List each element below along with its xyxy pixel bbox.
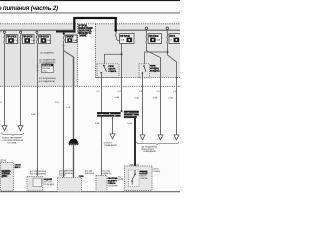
- svg-text:ЗАМОК: ЗАМОК: [66, 36, 74, 39]
- fuse F7 icon: [174, 38, 180, 43]
- page background: [0, 0, 180, 200]
- fuse F1 box: [6, 35, 18, 44]
- dashed box left section right edge: [77, 24, 79, 87]
- wire W6 relay K2 output: [142, 74, 144, 135]
- fuse F5 box: [120, 34, 134, 44]
- svg-text:0,5Ч: 0,5Ч: [169, 98, 174, 100]
- fuse F6 element: [146, 33, 147, 43]
- switch S1 tag: [140, 171, 148, 175]
- wire W4b: [73, 57, 75, 178]
- node relay K1 feed junction: [121, 53, 123, 55]
- fuse F3 icon: [41, 38, 47, 43]
- fuse F4 icon: [67, 38, 72, 42]
- bottom border rule: [0, 190, 180, 193]
- connector C1 pin block: [33, 178, 42, 186]
- fuse F1 terminal ring: [3, 31, 5, 33]
- svg-text:ПИТАНИЯ Ч.1: ПИТАНИЯ Ч.1: [78, 32, 92, 35]
- fuse F1 element: [4, 33, 5, 43]
- fuse F5 icon: [127, 38, 133, 43]
- bus bar thick segment: [56, 31, 76, 33]
- fuse F4 element: [63, 35, 64, 43]
- wire W3: [37, 43, 39, 176]
- brace under arrows A4 A5 A6: [137, 142, 179, 145]
- svg-text:(ДИЗ): (ДИЗ): [118, 179, 123, 181]
- svg-text:СТЕКЛА: СТЕКЛА: [108, 70, 116, 73]
- svg-text:П/Р Б: П/Р Б: [170, 36, 176, 38]
- fuse F3 box: [39, 35, 51, 44]
- thick battery feed bus: [74, 18, 115, 33]
- fuse F7 box: [169, 34, 181, 44]
- svg-text:(ДИЗЕЛЬ): (ДИЗЕЛЬ): [103, 173, 112, 175]
- svg-text:ТОПЛИВА: ТОПЛИВА: [7, 141, 17, 144]
- wire W1: [4, 43, 6, 125]
- svg-text:[37-4]: [37-4]: [0, 160, 6, 162]
- svg-text:ВЫКЛ: ВЫКЛ: [140, 173, 147, 175]
- svg-text:10A: 10A: [120, 39, 124, 42]
- brace under arrows A1 A2: [2, 133, 24, 136]
- wire W7 fuse F6 output: [147, 43, 161, 134]
- arrow A3: [110, 134, 115, 139]
- svg-text:[0,5 З/Б](БЕНЗ): [0,5 З/Б](БЕНЗ): [41, 52, 55, 54]
- svg-text:[0,5 З/Ч](ДИЗЕЛЬ): [0,5 З/Ч](ДИЗЕЛЬ): [30, 174, 46, 176]
- svg-text:10A: 10A: [156, 39, 160, 42]
- splice hatch bar: [69, 143, 79, 145]
- svg-text:15A: 15A: [14, 39, 18, 42]
- node lighting branch junction: [121, 110, 123, 112]
- wire W8 fuse F7 output: [168, 43, 177, 134]
- wire W3 branch ticks: [37, 65, 39, 70]
- wire W4 branch jog: [64, 51, 74, 57]
- svg-text:П/Р БЛОК: П/Р БЛОК: [149, 36, 159, 38]
- fuse F2 element: [20, 33, 21, 43]
- connector box C3: [96, 176, 107, 192]
- svg-text:ВОЗДУХА: ВОЗДУХА: [150, 70, 160, 73]
- wire W5 fuse F5 output: [121, 43, 123, 111]
- wire relay K2 feed: [145, 52, 168, 64]
- svg-text:[0,5 З/Ч](ДИЗЕЛЬ): [0,5 З/Ч](ДИЗЕЛЬ): [39, 81, 55, 83]
- top rule: [0, 12, 180, 15]
- fuse F2 icon: [24, 38, 30, 43]
- fuse F5 element (bus fed): [115, 32, 119, 41]
- svg-text:РАЗЪЕМ: РАЗЪЕМ: [42, 67, 50, 70]
- junction box shaded area right: [96, 24, 181, 78]
- svg-text:ние питания (часть 2): ние питания (часть 2): [0, 5, 58, 12]
- fuse F1 icon: [8, 38, 14, 43]
- top border line: [0, 0, 180, 1]
- fuse F6 icon: [150, 38, 155, 43]
- fuse row bus line left: [0, 29, 75, 32]
- switch box S1 bottom-right: [125, 166, 153, 191]
- dashed box bottom edge left: [0, 85, 180, 87]
- node fuse tap: [63, 33, 65, 35]
- node bus drop terminal: [114, 29, 117, 32]
- fuse row bus line right: [115, 29, 180, 32]
- fuse F3 element: [36, 33, 37, 43]
- svg-text:0,5В: 0,5В: [115, 97, 120, 99]
- svg-text:СМ.СХЕМУ: СМ.СХЕМУ: [108, 186, 119, 188]
- svg-text:1,0В: 1,0В: [31, 114, 36, 116]
- wire W2: [20, 43, 22, 125]
- svg-text:30A: 30A: [73, 39, 77, 42]
- dashed box bottom edge right inner: [96, 77, 181, 79]
- arrow A2: [18, 126, 23, 131]
- svg-text:ЗАЖИГ.: ЗАЖИГ.: [79, 34, 87, 37]
- relay K1 dashed box: [97, 64, 119, 78]
- relay K2 contact: [143, 65, 145, 67]
- svg-text:ЕМУ 2: ЕМУ 2: [15, 167, 22, 169]
- net label band right: [124, 111, 139, 113]
- shield splice dome on W4b: [69, 139, 78, 144]
- svg-text:15A: 15A: [30, 39, 34, 42]
- arrow A4: [140, 135, 145, 140]
- node relay K2 feed junction: [167, 51, 169, 53]
- svg-text:[06] ЮТ-В: [06] ЮТ-В: [130, 165, 140, 167]
- arrow A5: [158, 135, 163, 140]
- switch S1 inner box: [129, 170, 140, 187]
- arrow A1: [2, 126, 7, 131]
- svg-text:ПРОВОДКИ: ПРОВОДКИ: [44, 184, 55, 186]
- fuse F3 terminal ring: [36, 31, 38, 33]
- svg-text:ОСВЕЩ.: ОСВЕЩ.: [153, 171, 161, 173]
- svg-text:0,5Б: 0,5Б: [95, 123, 100, 125]
- fuse F6 terminal ring: [145, 27, 147, 29]
- net label band left: [97, 112, 121, 114]
- svg-text:10A: 10A: [47, 39, 51, 42]
- connector box C1: [27, 176, 43, 191]
- svg-text:0,5Б: 0,5Б: [153, 98, 158, 100]
- fuse F2 terminal ring: [20, 31, 22, 33]
- connector table at W3: [42, 64, 54, 73]
- fuse F2 box: [22, 35, 34, 44]
- svg-text:П/Р БЛОК: П/Р БЛОК: [120, 36, 130, 38]
- wire W9 relay K1 output: [101, 74, 103, 176]
- relay K1 contact: [103, 65, 105, 67]
- connector box C0 bottom-left: [1, 163, 14, 192]
- svg-text:СТЕКЛА: СТЕКЛА: [140, 177, 148, 180]
- dashed box top edge: [0, 23, 180, 25]
- fuse F7 terminal ring: [166, 27, 168, 29]
- fuse F7 element: [167, 33, 168, 43]
- connector box C2: [58, 178, 82, 192]
- wire branch to arrow A3: [112, 117, 114, 134]
- dashed box right section left edge: [94, 24, 96, 78]
- svg-text:ДВИГ.: ДВИГ.: [2, 176, 8, 178]
- svg-text:ОСВЕЩЕНИЕ: ОСВЕЩЕНИЕ: [143, 151, 156, 153]
- fuse F4 box: [66, 35, 78, 43]
- relay K2 dashed box: [139, 64, 150, 78]
- wire relay K1 feed: [105, 54, 122, 64]
- svg-text:(БЕНЗИН): (БЕНЗИН): [85, 173, 94, 175]
- svg-text:0,5Б: 0,5Б: [135, 98, 140, 100]
- svg-text:П/Р БЛОК: П/Р БЛОК: [42, 65, 52, 67]
- svg-text:0,5Ч: 0,5Ч: [128, 123, 133, 125]
- svg-text:[1,25 Ч]: [1,25 Ч]: [59, 175, 66, 177]
- svg-text:УПРАВЛЕНИЯ: УПРАВЛЕНИЯ: [104, 144, 118, 147]
- fuse F6 box: [148, 34, 161, 44]
- wire W4a: [63, 43, 65, 178]
- switch S1 contact: [134, 170, 136, 174]
- node W4a junction: [63, 44, 65, 46]
- junction box shaded area left: [0, 24, 78, 87]
- wire W5 lower thick to relay box: [134, 118, 136, 172]
- arrow A6: [174, 135, 179, 140]
